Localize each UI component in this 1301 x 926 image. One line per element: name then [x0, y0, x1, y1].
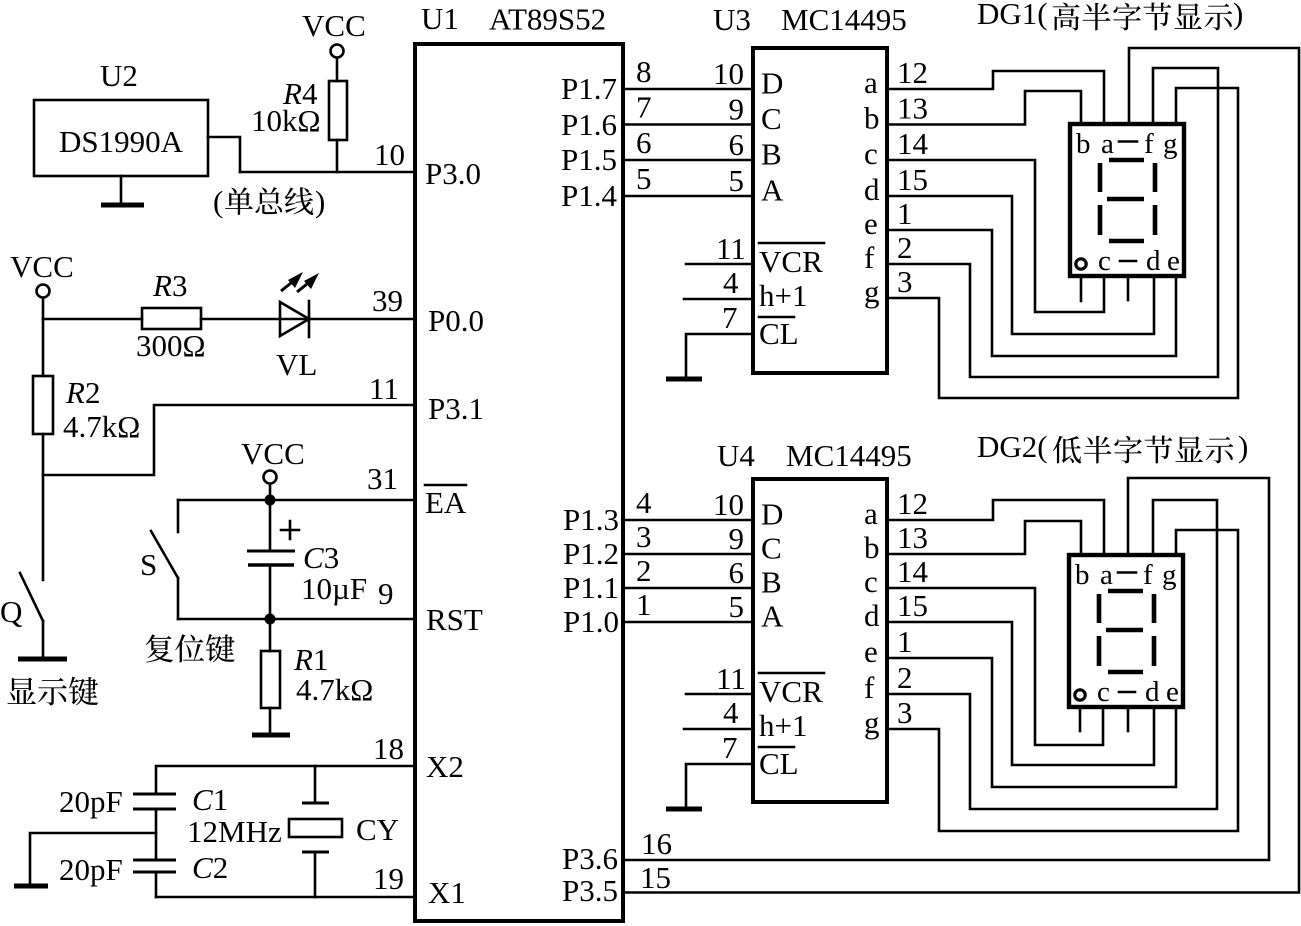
svg-text:19: 19 [373, 861, 404, 896]
svg-text:4: 4 [636, 485, 652, 520]
svg-text:DG1(: DG1( [977, 0, 1048, 31]
svg-text:C3: C3 [303, 540, 339, 575]
ground (Q) [18, 657, 67, 662]
svg-text:B: B [761, 565, 782, 600]
svg-text:10: 10 [374, 137, 405, 172]
svg-text:e: e [864, 634, 878, 669]
svg-text:S: S [140, 547, 157, 582]
svg-text:b: b [1075, 559, 1090, 591]
svg-text:U4: U4 [717, 438, 755, 473]
svg-text:c: c [864, 136, 878, 171]
svg-text:P3.1: P3.1 [428, 391, 484, 426]
label (单总线) single-wire bus [213, 184, 325, 219]
label DG1 title [977, 0, 1243, 31]
svg-text:P1.0: P1.0 [563, 604, 619, 639]
svg-text:11: 11 [369, 371, 399, 406]
IC U2 DS1990A [34, 58, 208, 176]
svg-text:3: 3 [636, 519, 652, 554]
svg-text:RST: RST [426, 602, 483, 637]
svg-text:4.7kΩ: 4.7kΩ [63, 409, 140, 444]
svg-text:P1.6: P1.6 [561, 107, 617, 142]
svg-text:g: g [864, 274, 880, 309]
wire U4.f to DG2.f [887, 500, 1217, 809]
wire R3 to LED [201, 318, 279, 321]
wire P1.0-A [623, 587, 753, 624]
svg-text:2: 2 [636, 553, 652, 588]
svg-text:P1.1: P1.1 [563, 570, 619, 605]
switch Q [20, 573, 43, 657]
svg-text:12: 12 [897, 55, 928, 90]
power VCC (P0.0 / R2 branch) [10, 249, 74, 319]
svg-text:(: ( [213, 184, 223, 219]
resistor R2 [33, 376, 53, 580]
resistor R3 [142, 308, 201, 329]
stub DG2 common bottom [1127, 707, 1130, 731]
svg-text:h+1: h+1 [759, 278, 807, 313]
svg-text:6: 6 [729, 127, 745, 162]
wire U2 to P3.0 node [208, 137, 240, 172]
pin label CL overline (U3) [759, 316, 799, 351]
wire U4.c to DG2.c [887, 588, 1103, 745]
svg-text:3: 3 [897, 695, 913, 730]
svg-text:9: 9 [729, 92, 745, 127]
svg-text:CL: CL [759, 316, 799, 351]
wire U3.f to DG1.f [887, 68, 1218, 377]
MCU U1 AT89S52 [415, 44, 623, 921]
svg-text:CY: CY [356, 812, 399, 847]
svg-text:CL: CL [759, 746, 799, 781]
svg-text:c: c [864, 564, 878, 599]
svg-text:16: 16 [641, 826, 672, 861]
svg-text:X2: X2 [426, 749, 464, 784]
label R3 300Ω [136, 268, 206, 363]
svg-text:4: 4 [723, 695, 739, 730]
capacitor C2 [133, 860, 176, 897]
LED VL [280, 272, 319, 337]
label 复位键 reset-key [146, 634, 235, 662]
power VCC (R4 pull-up) [302, 8, 366, 81]
svg-text:10: 10 [713, 56, 744, 91]
svg-text:g: g [864, 705, 880, 740]
svg-text:VCR: VCR [759, 244, 823, 279]
wire U4.d to DG2.d [887, 622, 1154, 765]
svg-text:A: A [761, 599, 784, 634]
svg-text:VCC: VCC [241, 436, 305, 471]
svg-text:P1.7: P1.7 [561, 71, 617, 106]
svg-text:9: 9 [378, 576, 394, 611]
svg-text:14: 14 [897, 554, 929, 589]
svg-text:AT89S52: AT89S52 [489, 2, 606, 37]
pin VCR stub (U4 pin 11) [686, 661, 753, 696]
resistor R1 [261, 619, 280, 734]
svg-text:d: d [1146, 245, 1161, 277]
decoder U4 MC14495 [753, 479, 887, 802]
label 单总线 text [225, 187, 313, 215]
wire U3.b to DG1.b [887, 91, 1081, 125]
svg-text:P3.5: P3.5 [562, 873, 618, 908]
wire U4.g to DG2.g [887, 530, 1238, 831]
svg-text:20pF: 20pF [59, 852, 123, 887]
wire U4.b to DG2.b [887, 521, 1081, 555]
svg-text:e: e [1167, 245, 1180, 277]
pin label CL overline (U4) [759, 746, 799, 781]
svg-text:2: 2 [897, 660, 913, 695]
svg-text:9: 9 [729, 521, 745, 556]
svg-text:h+1: h+1 [759, 708, 807, 743]
svg-text:39: 39 [372, 283, 403, 318]
svg-text:): ) [1233, 0, 1243, 31]
stub DG1 common bottom [1127, 276, 1130, 300]
ground (U2) [101, 176, 144, 205]
label R1 4.7kΩ [293, 642, 373, 707]
svg-text:VCR: VCR [759, 674, 823, 709]
svg-text:g: g [1162, 559, 1177, 591]
svg-text:A: A [761, 173, 784, 208]
svg-text:1: 1 [897, 196, 913, 231]
svg-text:DG2(: DG2( [977, 429, 1048, 464]
wire U3.c to DG1.c [887, 160, 1104, 312]
svg-text:10kΩ: 10kΩ [251, 103, 321, 138]
svg-text:P3.0: P3.0 [425, 156, 481, 191]
svg-text:b: b [864, 101, 880, 136]
svg-text:c: c [1097, 676, 1110, 708]
svg-text:VCC: VCC [10, 249, 74, 284]
ground (U3 CL) [666, 377, 702, 382]
svg-text:15: 15 [640, 860, 671, 895]
stub DG2 dp [1079, 707, 1082, 731]
svg-text:12MHz: 12MHz [187, 814, 282, 849]
wire X1 net [156, 896, 415, 899]
svg-text:8: 8 [636, 54, 652, 89]
svg-text:D: D [761, 497, 783, 532]
svg-text:MC14495: MC14495 [786, 438, 912, 473]
crystal CY [289, 766, 342, 897]
svg-text:5: 5 [729, 589, 745, 624]
svg-text:C1: C1 [192, 782, 228, 817]
capacitor C3 [247, 500, 299, 619]
svg-text:15: 15 [897, 162, 928, 197]
svg-text:1: 1 [636, 587, 652, 622]
svg-text:d: d [1145, 676, 1160, 708]
label 高半字节显示 high-nibble [1053, 3, 1233, 31]
svg-text:R2: R2 [65, 375, 100, 410]
svg-text:14: 14 [897, 126, 929, 161]
svg-text:7: 7 [722, 730, 738, 765]
wire VCC to R3 [43, 318, 142, 321]
svg-text:12: 12 [897, 486, 928, 521]
svg-text:U1: U1 [421, 1, 459, 36]
svg-text:P0.0: P0.0 [428, 303, 484, 338]
svg-text:7: 7 [722, 300, 738, 335]
svg-text:DS1990A: DS1990A [59, 124, 184, 159]
svg-text:13: 13 [897, 520, 928, 555]
svg-text:U3: U3 [713, 2, 751, 37]
svg-text:11: 11 [716, 661, 746, 696]
svg-text:Q: Q [0, 594, 22, 629]
ground (U4 CL) [666, 807, 702, 812]
svg-text:10: 10 [713, 487, 744, 522]
wire LED to U1 P0.0 pin 39 [309, 318, 415, 321]
svg-text:P1.4: P1.4 [561, 178, 617, 213]
svg-text:P1.3: P1.3 [563, 502, 619, 537]
svg-text:P1.5: P1.5 [561, 142, 617, 177]
wire P1.4-A [623, 161, 753, 198]
svg-text:a: a [864, 65, 878, 100]
label DG2 title [977, 429, 1248, 464]
svg-text:a: a [1100, 559, 1113, 591]
pin h+1 stub (U4 pin 4) [684, 695, 753, 730]
wire single-bus to U1 P3.0 pin 10 [240, 171, 415, 174]
svg-text:31: 31 [367, 461, 398, 496]
svg-text:13: 13 [897, 91, 928, 126]
svg-text:B: B [761, 137, 782, 172]
svg-text:): ) [315, 184, 325, 219]
pin label EA (overline) [425, 485, 467, 520]
wire X2 net [156, 766, 415, 794]
svg-text:f: f [1144, 128, 1154, 160]
svg-text:11: 11 [716, 231, 746, 266]
svg-text:5: 5 [729, 163, 745, 198]
svg-text:U2: U2 [100, 58, 138, 93]
svg-text:1: 1 [897, 624, 913, 659]
svg-text:15: 15 [897, 588, 928, 623]
svg-text:EA: EA [425, 485, 467, 520]
wire U3.a to DG1.a [887, 71, 1104, 124]
pin CL wire to ground (U3 pin 7) [686, 300, 753, 377]
wire RST net [178, 618, 415, 621]
svg-text:d: d [864, 598, 880, 633]
svg-text:6: 6 [729, 555, 745, 590]
svg-text:C: C [761, 101, 782, 136]
svg-text:6: 6 [636, 125, 652, 160]
svg-text:f: f [864, 240, 875, 275]
svg-text:b: b [1076, 128, 1091, 160]
label 低半字节显示 low-nibble [1053, 436, 1233, 464]
label R2 4.7kΩ [63, 375, 140, 444]
svg-text:d: d [864, 172, 880, 207]
wire P1.2-C [623, 519, 753, 556]
wire U3.d to DG1.d [887, 196, 1154, 334]
svg-text:e: e [1166, 676, 1179, 708]
wire U4.e to DG2.e [887, 658, 1176, 787]
wire to ground tap [30, 833, 156, 884]
svg-text:f: f [1143, 559, 1153, 591]
pin label VCR overline (U3) [759, 243, 824, 279]
svg-text:4: 4 [723, 265, 739, 300]
svg-text:7: 7 [636, 90, 652, 125]
svg-text:MC14495: MC14495 [781, 2, 907, 37]
svg-text:10µF: 10µF [301, 571, 367, 606]
label R4 10kΩ [251, 76, 321, 138]
wire U4.a to DG2.a [887, 500, 1104, 555]
svg-text:f: f [864, 670, 875, 705]
ground (R1) [252, 733, 290, 738]
wire EA net [178, 499, 415, 502]
wire U3.e to DG1.e [887, 230, 1176, 356]
pin CL wire to ground (U4 pin 7) [686, 730, 753, 807]
wire U3.g to DG1.g [887, 88, 1238, 398]
svg-text:a: a [1101, 128, 1114, 160]
wire P3.6 to DG2 common [623, 478, 1269, 860]
wire P1.5-B [623, 125, 753, 162]
svg-text:c: c [1098, 245, 1111, 277]
wire P1.6-C [623, 90, 753, 127]
stub DG1 dp [1080, 276, 1083, 301]
svg-text:VCC: VCC [302, 8, 366, 43]
svg-text:4.7kΩ: 4.7kΩ [296, 672, 373, 707]
svg-text:3: 3 [897, 264, 913, 299]
junction dot EA/VCC [265, 495, 276, 506]
svg-text:P1.2: P1.2 [563, 536, 619, 571]
svg-text:2: 2 [897, 230, 913, 265]
wire P3.5 to DG1 common [623, 48, 1299, 893]
svg-text:300Ω: 300Ω [136, 328, 206, 363]
svg-text:b: b [864, 530, 880, 565]
wire R2 to P3.1 [43, 405, 415, 475]
svg-text:20pF: 20pF [59, 784, 123, 819]
switch S [151, 500, 178, 619]
svg-text:e: e [864, 206, 878, 241]
ground (C1/C2) [14, 884, 48, 889]
pin label VCR overline (U4) [759, 673, 824, 709]
wire VCC down to R2 [42, 319, 45, 376]
wire P1.3-D [623, 485, 753, 522]
svg-text:): ) [1238, 429, 1248, 464]
junction dot RST [265, 614, 276, 625]
decoder U3 MC14495 [753, 48, 887, 373]
svg-text:18: 18 [373, 731, 404, 766]
svg-text:R3: R3 [152, 268, 187, 303]
svg-text:C2: C2 [192, 850, 228, 885]
power VCC (reset) [241, 436, 305, 500]
svg-text:C: C [761, 531, 782, 566]
pin h+1 stub (U3 pin 4) [684, 265, 753, 300]
display DG2 7-segment [1069, 555, 1183, 708]
wire P1.7-D [623, 54, 753, 91]
label C3 10µF [301, 540, 367, 606]
wire P1.1-B [623, 553, 753, 590]
svg-text:D: D [761, 66, 783, 101]
svg-text:P3.6: P3.6 [562, 841, 618, 876]
svg-text:g: g [1163, 128, 1178, 160]
display DG1 7-segment [1070, 124, 1184, 277]
resistor R4 [329, 81, 347, 172]
pin VCR stub (U3 pin 11) [686, 231, 753, 266]
svg-text:X1: X1 [428, 875, 466, 910]
capacitor C1 [133, 794, 176, 860]
svg-text:VL: VL [276, 347, 317, 382]
label 显示键 display-key [7, 677, 98, 706]
svg-text:a: a [864, 496, 878, 531]
svg-text:5: 5 [636, 161, 652, 196]
